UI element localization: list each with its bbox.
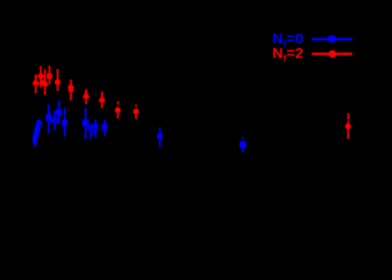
error bar cap R8 <box>84 92 88 93</box>
overlap stripe S5 <box>88 129 97 132</box>
blue data point B4 (square) <box>33 132 38 137</box>
legend entry Nf=2 line <box>312 53 353 56</box>
blue data point B12 (square) <box>89 125 93 129</box>
error bar R10 top faint <box>117 104 119 108</box>
error bar R4 <box>44 69 46 95</box>
error bar R12 <box>347 123 349 140</box>
blue data point B7 (square) <box>46 114 52 120</box>
overlap stripe S6 <box>90 132 95 135</box>
error bar B15 <box>159 128 161 147</box>
red data point R12 (circle) <box>345 123 351 129</box>
overlap stripe S4 <box>87 127 99 129</box>
legend entry Nf=0 line <box>312 38 353 41</box>
blue data point B14 (square) <box>102 124 108 130</box>
overlap stripe S7 <box>102 128 108 131</box>
red data point R5 (square) <box>47 73 52 78</box>
svg-text:Nf=2: Nf=2 <box>272 45 303 64</box>
error bar R11 top faint <box>135 104 137 109</box>
overlap stripe S3 <box>62 124 68 126</box>
blue data point B11 (square) <box>82 120 88 126</box>
blue data point B13 (square) <box>93 124 98 129</box>
red data point R1 (star) <box>33 80 38 85</box>
red data point R6 (circle) <box>55 79 61 85</box>
blue data point B3 (square) <box>34 128 39 133</box>
error bar B1 <box>38 119 40 123</box>
red data point R8 (star) <box>84 94 89 99</box>
legend entry Nf=0 square marker <box>329 36 336 43</box>
error bar B16 top faint <box>242 139 243 142</box>
blue data point B6 (square) <box>33 140 37 144</box>
error bar B12 <box>90 127 92 139</box>
error bar cap R1 top <box>35 75 37 79</box>
error bar B9 <box>58 101 60 124</box>
red data point R3 (star) <box>40 80 45 85</box>
error bar B14 <box>104 120 106 137</box>
error bar B10 <box>64 108 66 136</box>
error bar R1 <box>35 75 37 94</box>
blue data point B16 (square) <box>240 142 247 149</box>
error bar R2 <box>40 66 42 88</box>
error bar R10 <box>117 110 119 118</box>
overlap stripe S1b <box>48 121 59 123</box>
blue data point B9 (square) <box>56 110 62 116</box>
error bar B11 <box>85 108 87 139</box>
error bar B13 <box>94 120 96 138</box>
blue data point B10 (square) <box>62 120 68 126</box>
overlap stripe S2 <box>52 122 57 124</box>
error bar B8 <box>54 111 56 130</box>
error bar R10 top dash <box>117 101 119 103</box>
blue data point B5 (square) <box>33 136 38 141</box>
blue data point B15 (square) <box>157 134 162 139</box>
red data point R2 (circle) <box>38 73 44 79</box>
error bar R9 <box>101 92 103 109</box>
red data point R7b (mini) <box>68 90 74 91</box>
blue data point B8 (square) <box>52 118 57 123</box>
error bar R12 top segment <box>347 113 349 120</box>
error bar B16 <box>242 145 244 153</box>
error bar R7a <box>70 80 72 101</box>
red data point R10 (circle) <box>115 107 121 113</box>
error bar R11 top dot <box>135 105 137 107</box>
legend entry Nf=2 circle marker <box>329 50 337 58</box>
red data point R9 (star) <box>99 97 104 102</box>
error bar B7 <box>48 104 50 134</box>
error bar R6 <box>57 69 59 91</box>
red data point R4 (star) <box>42 81 47 86</box>
red data point R7a (circle) <box>68 84 74 90</box>
error bar R12 top dot <box>348 120 350 122</box>
error bar B5 <box>34 139 36 147</box>
error bar R8 <box>85 89 87 104</box>
error bar R11 <box>135 112 137 119</box>
error bar R5 <box>49 66 51 85</box>
red data point R11 (circle) <box>133 109 139 115</box>
blue data point B2 (square) <box>35 124 40 129</box>
error bar B16 top dash <box>242 137 244 139</box>
overlap stripe S1 <box>45 119 57 121</box>
blue data point B1 (square) <box>37 120 42 125</box>
